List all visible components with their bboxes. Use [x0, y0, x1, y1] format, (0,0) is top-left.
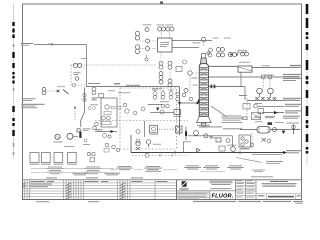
- bottoms line labels: [286, 150, 301, 151]
- bottoms pipe: [131, 152, 286, 154]
- valve arrow on it: [156, 108, 159, 112]
- dashed link: [47, 90, 56, 92]
- equipment title flanking rules: [31, 169, 225, 173]
- vert drop from condenser: [240, 72, 242, 87]
- svg-text:FLUOR.: FLUOR.: [211, 193, 233, 199]
- leader to note: [211, 106, 227, 117]
- disclaimer paragraph: [177, 192, 209, 200]
- package line y104.5: [148, 104, 162, 106]
- small connector box: [258, 109, 264, 114]
- column top fitting: [202, 54, 206, 59]
- pipe line top-left horizontal: [34, 44, 87, 46]
- extra note bars: [205, 126, 222, 127]
- top frame faint ticks: [40, 3, 293, 4]
- drawing title text: [262, 181, 297, 187]
- misc gray labels scattered: [118, 91, 130, 94]
- right column aux: box & symbols x243-260 y103-120: [243, 104, 250, 110]
- blind symbol: [293, 125, 295, 135]
- control valves above bottoms pipe: [136, 141, 140, 145]
- level transmitter row on package top: [153, 92, 173, 100]
- note text block: [222, 115, 242, 118]
- package right edge solid: [179, 87, 181, 135]
- pipe riser x86: [86, 45, 88, 87]
- four equipment squares: [30, 153, 76, 163]
- control valve 1: [257, 88, 263, 94]
- title block outline: [177, 179, 302, 181]
- bubbles on downcomer: [83, 94, 86, 97]
- small valve under gauge: [145, 58, 148, 61]
- revision table outline: [23, 180, 177, 200]
- main process line y86: [87, 86, 180, 88]
- exchanger drum: [257, 126, 270, 133]
- package dashed boundary box: [120, 88, 177, 149]
- left tick marks: [12, 22, 14, 136]
- arrow on package right edge: [178, 102, 181, 106]
- line label top-left: [21, 43, 33, 44]
- line from condenser to right edge: [252, 67, 300, 69]
- stamp text above title block: [251, 176, 273, 177]
- condenser box E-2302: [238, 66, 252, 72]
- feed line into column: [180, 102, 199, 104]
- square captions: [30, 163, 78, 166]
- line y86.6 right of column: [208, 86, 245, 88]
- bypass bowties: [255, 97, 258, 100]
- package edge bubbles: [176, 92, 180, 96]
- dark inline valve: [79, 132, 81, 139]
- drawing number row: [256, 193, 302, 195]
- bottoms drop with dark valve: [185, 127, 187, 141]
- dashed links: [140, 41, 158, 49]
- flag symbol on pipe: [197, 149, 201, 153]
- instrument dashed riser x71: [70, 65, 72, 85]
- control box: [158, 38, 173, 52]
- line y129 with exchanger drum: [240, 129, 300, 131]
- column label: [197, 124, 210, 127]
- inline tick marks on bottoms pipe: [174, 151, 176, 154]
- column skirt: [196, 117, 212, 123]
- revision table column lines: [25, 180, 155, 200]
- title block mid rows: [236, 182, 257, 195]
- hatch marks col group 2: [120, 183, 125, 199]
- small box valve: [77, 129, 80, 132]
- small box on line: [174, 110, 181, 115]
- instrument bubbles left of line: [73, 63, 81, 80]
- line number text on bottoms pipe: [252, 153, 282, 156]
- revision entries text: [23, 184, 52, 188]
- signal lines from box to column: [172, 40, 212, 42]
- pump A: [55, 134, 60, 139]
- overhead bubble: [201, 37, 205, 41]
- circle pair right of drum: [273, 128, 277, 132]
- drawing border frame: [23, 4, 302, 200]
- left faint ticks: [13, 44, 15, 155]
- bottom line y100.5 to right edge: [247, 99, 300, 101]
- top right instrument row: [217, 48, 249, 58]
- client logo: [179, 181, 189, 190]
- analyzer box 1: [150, 125, 158, 133]
- label above: [143, 23, 152, 26]
- control valve 2: [268, 88, 274, 94]
- drain triangle: [282, 131, 286, 134]
- instrument signal dashed y65: [71, 64, 157, 66]
- vert line x131 down to bottom pipe: [130, 135, 132, 153]
- downcomer pipe left: [81, 88, 85, 128]
- pump B: [67, 133, 73, 139]
- inline valve diagonal: [63, 90, 69, 95]
- reflux/product line y77: [208, 76, 300, 78]
- footer text below frame: [36, 201, 303, 204]
- instrument dashed jog: [71, 84, 86, 86]
- column bottoms manifold: [188, 135, 233, 137]
- pump area label: [83, 127, 91, 130]
- analyzer box 2: [176, 126, 183, 133]
- dashed link between analyzers: [159, 128, 175, 130]
- cluster: instruments left of package: [92, 87, 96, 130]
- labels row y116-125: [265, 115, 275, 118]
- small cluster left of signal line: [87, 152, 90, 155]
- equipment title blocks row: [46, 165, 244, 175]
- filled valve blob: [268, 122, 273, 125]
- notes text left margin y104: [22, 104, 45, 105]
- stacked instrument pair 1: [135, 28, 149, 54]
- right mid: two export lines: [258, 105, 284, 107]
- sub-package internal boxes: [104, 112, 111, 115]
- overhead line to condenser: [208, 65, 238, 67]
- extra mid cluster details: [125, 109, 129, 113]
- hand switch cluster: [42, 87, 46, 94]
- solid sub-package box: [101, 98, 117, 127]
- extra pump-area bubbles: [95, 122, 120, 151]
- leader to note bottom right: [236, 158, 262, 163]
- package internals: [102, 103, 181, 143]
- arrow at right end: [283, 151, 287, 154]
- mid rows tiny text: [237, 180, 255, 197]
- small label left margin y99: [23, 97, 36, 100]
- right tick marks: [306, 4, 309, 154]
- lower trap box: [219, 146, 225, 151]
- instrument chain x161: [159, 61, 172, 87]
- long instrument dashed line y120.5: [95, 120, 188, 122]
- feed arrow black: [197, 99, 200, 103]
- revision table row lines: [23, 183, 177, 197]
- column trays: [199, 68, 208, 116]
- sub-package bottom line: [95, 131, 117, 133]
- bottom signal dashed line: [132, 154, 188, 156]
- package line y112: [150, 111, 174, 113]
- control valve station right: dashed drops: [263, 79, 270, 88]
- line label mid: [126, 85, 140, 86]
- instruments left of column: [188, 71, 192, 75]
- small dark mark: [114, 83, 120, 84]
- column body: [199, 63, 208, 116]
- small marks top: [242, 117, 247, 120]
- vert line x144.5: [144, 121, 146, 137]
- right registration line: [306, 3, 308, 165]
- dark label left margin: [92, 98, 98, 99]
- bubbles above control box: [158, 27, 174, 31]
- dashed riser with arrow: [74, 108, 76, 121]
- column neck: [200, 58, 206, 64]
- hatch marks col group 1: [66, 183, 71, 199]
- top edge fold mark: [160, 2, 163, 4]
- tray hatch diagonals: [199, 68, 208, 116]
- trap assembly box: [239, 135, 251, 147]
- small flag box: [99, 94, 104, 98]
- tiny marks top of downcomer: [88, 107, 91, 110]
- left registration line: [13, 3, 15, 158]
- X valve and bubble: [262, 138, 267, 142]
- revision table header text: [31, 180, 168, 183]
- certification text: [210, 181, 233, 189]
- vertical dashed right x247: [246, 98, 248, 120]
- captions above revision table: [46, 177, 57, 178]
- dashed drop x252: [251, 133, 253, 150]
